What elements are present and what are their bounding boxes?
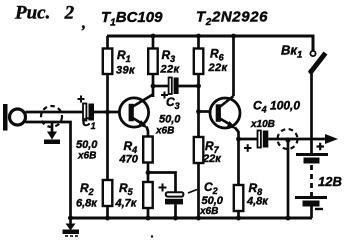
wire bottom ground rail	[71, 217, 313, 220]
label R8	[246, 181, 269, 208]
wire switch to battery	[310, 72, 313, 154]
label C2	[199, 180, 224, 217]
svg-text:22к: 22к	[160, 64, 181, 76]
microphone	[3, 104, 26, 131]
svg-text:R3: R3	[162, 48, 176, 64]
node emitter C4	[236, 137, 241, 142]
plus C4	[244, 144, 252, 152]
wire output to ground rail	[287, 140, 290, 218]
svg-text:,: ,	[81, 15, 86, 32]
title Рис. 2	[14, 3, 86, 33]
node R3 top rail	[151, 34, 156, 39]
svg-text:C2: C2	[204, 180, 218, 196]
switch Bk1	[308, 51, 325, 74]
wire collector T2 to rail	[232, 36, 235, 96]
capacitor C4	[239, 131, 327, 148]
svg-text:470: 470	[119, 154, 139, 166]
label R4	[119, 139, 139, 166]
svg-text:T1BC109: T1BC109	[101, 9, 163, 29]
resistor R6	[194, 36, 204, 112]
label Bk1	[281, 43, 302, 61]
svg-text:C4 100,0: C4 100,0	[253, 99, 300, 115]
svg-text:Рис. 2: Рис. 2	[14, 3, 75, 24]
svg-text:C3: C3	[166, 95, 180, 111]
plus C1	[78, 96, 85, 103]
battery 12V	[295, 155, 328, 219]
resistor R3	[148, 36, 158, 97]
svg-text:х10В: х10В	[250, 119, 275, 130]
node R6 rail	[196, 34, 201, 39]
capacitor C2	[148, 173, 183, 219]
plus C2	[159, 184, 167, 192]
svg-text:50,0: 50,0	[76, 139, 98, 151]
label T1 BC109	[101, 9, 163, 29]
node base T2	[196, 109, 201, 114]
node output	[285, 137, 290, 142]
svg-text:Вк1: Вк1	[281, 43, 302, 61]
capacitor C3	[153, 78, 199, 95]
label R3	[160, 48, 181, 76]
svg-text:R6: R6	[210, 47, 225, 63]
resistor R7	[194, 112, 204, 219]
resistor R5	[143, 173, 153, 219]
label R1	[116, 48, 136, 77]
wire C1 to base node	[94, 111, 120, 114]
wire top supply rail	[107, 36, 313, 51]
speck	[151, 235, 153, 237]
svg-text:х6В: х6В	[199, 206, 218, 217]
svg-text:4,7к: 4,7к	[115, 198, 138, 210]
capacitor C1	[83, 104, 94, 121]
dashed circle connector	[41, 106, 62, 127]
node C3 R6	[196, 84, 201, 89]
svg-text:R2: R2	[80, 181, 94, 197]
svg-text:T22N2926: T22N2926	[196, 9, 268, 29]
node base T1	[105, 110, 110, 115]
node collector T2 rail	[231, 34, 236, 39]
svg-text:х6В: х6В	[155, 126, 174, 137]
svg-text:22к: 22к	[208, 62, 229, 74]
transistor T1	[119, 95, 152, 138]
svg-text:6,8к: 6,8к	[76, 198, 98, 210]
wire mic bottom lead	[26, 122, 71, 218]
resistor R8	[234, 185, 244, 218]
plus C3	[161, 92, 168, 99]
wire base T2	[199, 110, 212, 113]
node R3 C3	[151, 84, 156, 89]
battery plus	[317, 143, 325, 150]
label C4	[250, 99, 300, 131]
node dots bottom rail	[68, 216, 73, 221]
svg-text:22к: 22к	[202, 153, 222, 165]
svg-text:50,0: 50,0	[159, 114, 181, 126]
resistor R4	[143, 137, 153, 173]
wire mic top lead	[26, 111, 84, 114]
dashed circle output jack	[278, 129, 298, 149]
node R4 R5	[146, 170, 151, 175]
transistor T2	[210, 96, 240, 139]
output arrow	[325, 134, 338, 144]
ground symbol at rail left end	[63, 218, 80, 236]
label R6	[208, 47, 229, 75]
label R7	[202, 139, 222, 165]
label C3	[155, 95, 181, 137]
svg-text:12В: 12В	[318, 174, 342, 189]
wire emitter T2 down	[237, 139, 240, 185]
svg-text:4,8к: 4,8к	[246, 196, 269, 208]
svg-text:R5: R5	[119, 181, 134, 197]
label C1	[76, 115, 98, 162]
resistor R2	[103, 112, 113, 218]
label 12V	[318, 174, 342, 189]
battery minus	[315, 208, 323, 210]
shield ground	[44, 122, 60, 144]
label R5	[115, 181, 138, 210]
svg-text:39к: 39к	[116, 65, 136, 77]
leader line C2	[188, 190, 197, 194]
svg-text:R1: R1	[117, 48, 131, 64]
svg-text:х6В: х6В	[77, 151, 96, 162]
label R2	[76, 181, 98, 210]
resistor R1	[103, 36, 113, 112]
label T2 2N2926	[196, 9, 268, 29]
